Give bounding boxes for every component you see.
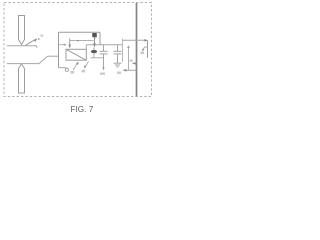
switch S1 lever	[26, 39, 37, 45]
svg-text:FIG. 7: FIG. 7	[71, 105, 94, 114]
terminal leader tick	[145, 46, 148, 48]
lower stub wire to wall	[124, 69, 137, 71]
numeral smudge left of lower stub	[117, 72, 121, 74]
arrowhead right at terminal	[144, 39, 147, 41]
reference numeral 7 label	[92, 33, 97, 37]
control box bottom wire	[59, 67, 67, 69]
lower plunger arrowhead	[19, 64, 25, 69]
numeral smudge above short stub	[130, 60, 133, 62]
wire lower horizontal	[7, 63, 39, 65]
wire vertical to lower stub	[128, 46, 130, 70]
numeral smudge below	[71, 71, 75, 74]
wire upper horizontal	[7, 45, 37, 47]
wire relay box to rail	[85, 45, 87, 50]
ground symbol	[114, 62, 122, 64]
numeral smudge below left	[82, 70, 86, 73]
capacitor C1 upper lead	[103, 45, 105, 52]
diode top lead	[93, 47, 95, 50]
diode bottom lead	[93, 53, 95, 57]
arrowhead down at C1 lead end	[102, 67, 104, 70]
numeral smudge below C1	[100, 73, 105, 75]
capacitor C2 upper lead	[117, 45, 119, 52]
control box top side	[59, 31, 101, 33]
solenoid plunger lower (rectangle)	[19, 69, 25, 94]
control box right side	[99, 32, 101, 44]
terminal leader diagonal with arrow	[143, 47, 145, 50]
short stub wire at wall	[133, 62, 137, 64]
switch fixed contact tick	[36, 46, 38, 49]
switch lever arrowhead	[34, 38, 38, 42]
arrowhead left on lower stub	[123, 69, 127, 72]
leader from numeral down to rail	[94, 39, 96, 45]
wire diagonal from lower wire up to node	[39, 56, 48, 63]
terminal vertical right of wall	[147, 40, 149, 58]
switch contact dot	[38, 38, 40, 40]
enclosure dashed border	[4, 3, 152, 97]
arrowhead on short stub	[132, 62, 136, 64]
node rail	[86, 44, 122, 46]
diode D1 (filled blob)	[91, 50, 97, 53]
capacitor C2 lower lead	[117, 54, 119, 63]
wire top horizontal crossing wall	[123, 39, 148, 41]
leader horizontal with arrowhead	[70, 40, 94, 42]
wire diode to capacitor column	[91, 57, 104, 59]
partition wall (thick vertical line)	[136, 3, 138, 97]
control box left side	[58, 32, 60, 67]
leader arrow up at rail	[127, 45, 130, 48]
wire vertical right of rail	[122, 39, 124, 63]
leader arrow up-right at relay bottom	[73, 62, 78, 70]
capacitor C1 plates	[100, 50, 108, 52]
relay diagonal	[66, 49, 86, 60]
capacitor C2 plates	[114, 50, 122, 52]
leader arrow onto relay top	[69, 39, 71, 47]
numeral smudge right side	[141, 52, 145, 55]
capacitor C1 lower lead	[103, 54, 105, 68]
relay K1 box with diagonal	[66, 49, 86, 60]
leader arrow at left vertical	[59, 44, 66, 46]
upper plunger arrowhead	[19, 40, 25, 45]
wire into control box	[48, 55, 59, 57]
leader arrow down-left from relay corner	[85, 61, 89, 67]
solenoid plunger upper (rectangle)	[19, 16, 25, 40]
leader circle below control box	[65, 68, 68, 71]
faint numeral smudge near switch	[41, 35, 44, 37]
